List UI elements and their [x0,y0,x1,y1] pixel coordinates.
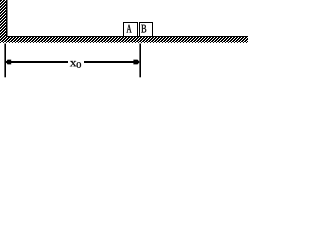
dimension line right segment [84,61,139,63]
wall (left, hatched strip) [0,0,6,37]
block B [139,22,153,37]
dimension line left segment [6,61,68,63]
right extension line [139,44,141,78]
ground surface line [6,36,248,37]
label B [141,25,146,33]
label A [127,25,132,33]
left arrowhead [6,60,11,65]
right arrowhead [133,60,139,65]
ground hatch [0,37,248,42]
wall face line [6,0,7,36]
left extension line [4,44,6,78]
block A [123,22,138,37]
dimension label x0 [70,61,81,68]
